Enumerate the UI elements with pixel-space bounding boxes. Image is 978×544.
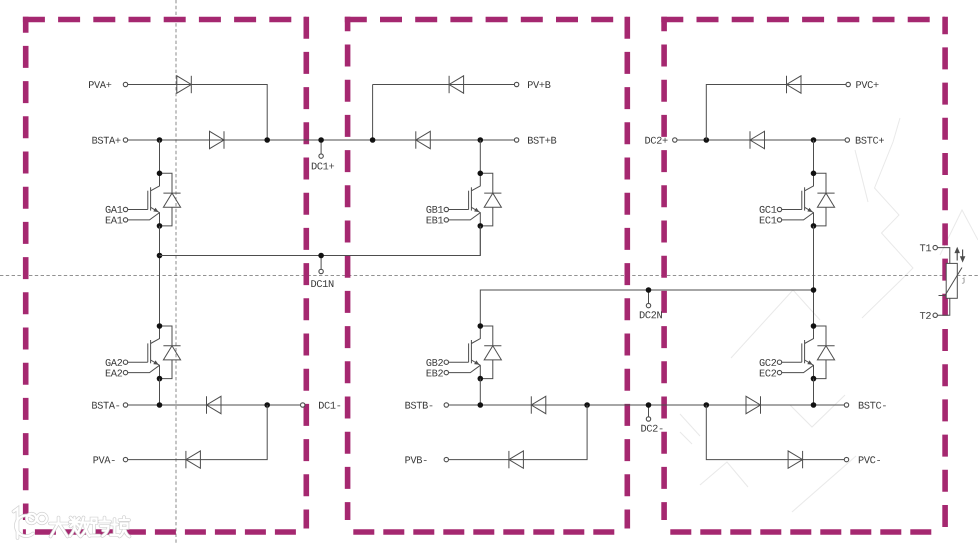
label GA2	[106, 359, 123, 366]
junction DC2N tap	[646, 287, 652, 293]
junction DC1+ B node	[370, 137, 376, 143]
label GB2	[426, 359, 443, 366]
label PVA+	[89, 81, 111, 88]
junction PVA+ join	[264, 137, 270, 143]
terminal DC1+	[319, 154, 323, 158]
terminal BSTC+	[845, 138, 849, 142]
label PVB-	[405, 456, 426, 463]
label EA2	[106, 370, 122, 377]
transistor Q3 IGBT GB1/EB1	[444, 171, 501, 229]
label EC1	[760, 217, 777, 224]
label PV+B	[528, 81, 551, 88]
label PVC-	[859, 456, 880, 463]
diode BST+B series	[416, 131, 431, 148]
label EC2	[760, 370, 776, 377]
terminal PV+B	[514, 82, 518, 86]
label BSTA-	[92, 402, 119, 409]
decorative watermark logo	[14, 509, 130, 539]
terminal DC1-	[301, 403, 305, 407]
wire leg B upper	[479, 140, 481, 173]
diode BSTC+ series	[750, 131, 765, 148]
diode BSTA+ series	[210, 131, 225, 148]
transistor Q2 IGBT GA2/EA2	[123, 323, 180, 381]
label BST+B	[528, 137, 556, 144]
label BSTA+	[92, 137, 120, 144]
label BSTB-	[405, 402, 432, 409]
junction DC1N join A	[157, 253, 163, 259]
label T2	[920, 312, 931, 319]
diode BSTA- series	[207, 396, 222, 413]
label EB1	[427, 217, 444, 224]
wire leg A lower	[159, 379, 161, 405]
wire leg B lower	[479, 379, 481, 405]
wire leg B to DC1N	[479, 226, 481, 256]
junction DC2- tap	[646, 402, 652, 408]
wire DC2+/BSTC+ rail	[677, 139, 845, 141]
wire PVC+ rail	[706, 85, 846, 141]
wire leg C middle	[813, 226, 815, 326]
terminal PVC+	[846, 82, 850, 86]
label DC1N	[311, 280, 333, 287]
wire PV+B drop	[372, 85, 374, 141]
wire DC1+ stub	[320, 140, 322, 154]
junction leg B top	[478, 137, 484, 143]
wire leg A middle	[159, 226, 161, 326]
terminal T1	[933, 245, 937, 249]
terminal BSTA+	[123, 138, 127, 142]
wire T1 lead	[938, 248, 950, 264]
label EB2	[427, 370, 443, 377]
terminal PVC-	[844, 457, 848, 461]
junction PVA- join	[264, 402, 270, 408]
label BSTC-	[859, 402, 886, 409]
terminal BSTA-	[123, 403, 127, 407]
diode PVC- series	[788, 451, 803, 468]
label PVA-	[94, 456, 115, 463]
label BSTC+	[856, 137, 884, 144]
junction leg B bottom	[478, 402, 484, 408]
terminal PVA+	[123, 82, 127, 86]
wire PVC- rail	[706, 405, 844, 460]
wire PVA- rail	[128, 405, 267, 460]
label T1	[920, 244, 931, 251]
wire BSTA+/DC1+ rail	[128, 139, 373, 141]
wire DC1N stub	[320, 256, 322, 270]
junction leg C top	[811, 137, 817, 143]
junction DC1+ tap	[318, 137, 324, 143]
terminal DC2N	[646, 303, 650, 307]
diode PVA+ series	[177, 76, 192, 93]
terminal DC2-	[646, 417, 650, 421]
transistor Q6 IGBT GC2/EC2	[777, 323, 834, 381]
label EA1	[106, 217, 123, 224]
wire leg C upper	[813, 140, 815, 173]
transistor Q1 IGBT GA1/EA1	[123, 171, 180, 229]
terminal PVA-	[123, 457, 127, 461]
junction DC1N tap	[318, 253, 324, 259]
label DC1-	[319, 402, 340, 409]
diode BSTB- series	[531, 396, 546, 413]
wire PVA+ to DC1+ node	[128, 85, 267, 141]
wire PVB- rail	[449, 405, 587, 460]
wire DC2- stub	[648, 405, 650, 417]
wire BST+B rail	[373, 139, 515, 141]
wire DC2N net	[480, 290, 813, 326]
junction DC2+ node	[704, 137, 710, 143]
label GC1	[760, 206, 777, 213]
terminal T2	[933, 313, 937, 317]
diode PV+B series	[449, 76, 464, 93]
junction leg C bottom	[811, 402, 817, 408]
junction DC2- node	[704, 402, 710, 408]
junction leg A top	[157, 137, 163, 143]
terminal BSTB-	[444, 403, 448, 407]
terminal DC2+	[673, 138, 677, 142]
label DC2-	[641, 425, 662, 432]
wire BSTA-/DC1- rail	[128, 404, 301, 406]
terminal PVB-	[444, 457, 448, 461]
label GB1	[426, 206, 443, 213]
label DC2+	[645, 137, 667, 144]
label DC1+	[312, 163, 334, 170]
label PVC+	[856, 81, 878, 88]
label DC2N	[640, 311, 662, 318]
junction DC2N join C	[811, 287, 817, 293]
wire leg C lower	[813, 379, 815, 405]
diode PVB- series	[509, 451, 524, 468]
transistor Q5 IGBT GC1/EC1	[777, 171, 834, 229]
wire leg A upper	[159, 140, 161, 173]
wire BSTB-/DC2-/BSTC- rail	[449, 404, 845, 406]
wire DC2N stub	[648, 290, 650, 303]
wire T2 lead	[937, 298, 949, 315]
terminal DC1N	[319, 269, 323, 273]
terminal BST+B	[514, 138, 518, 142]
wire PV+B rail	[373, 84, 515, 86]
junction PVB- join	[584, 402, 590, 408]
thermistor RT1	[939, 263, 963, 298]
diode PVA- series	[186, 451, 201, 468]
terminal BSTC-	[844, 403, 848, 407]
transistor Q4 IGBT GB2/EB2	[444, 323, 501, 381]
junction leg A bottom	[157, 402, 163, 408]
label GA1	[106, 206, 123, 213]
diode BSTC- series	[746, 396, 761, 413]
wire DC1N net	[160, 226, 481, 256]
arrows temperature up/down	[955, 248, 964, 261]
diode PVC+ series	[787, 76, 802, 93]
label GC2	[760, 359, 777, 366]
label j	[962, 277, 965, 284]
